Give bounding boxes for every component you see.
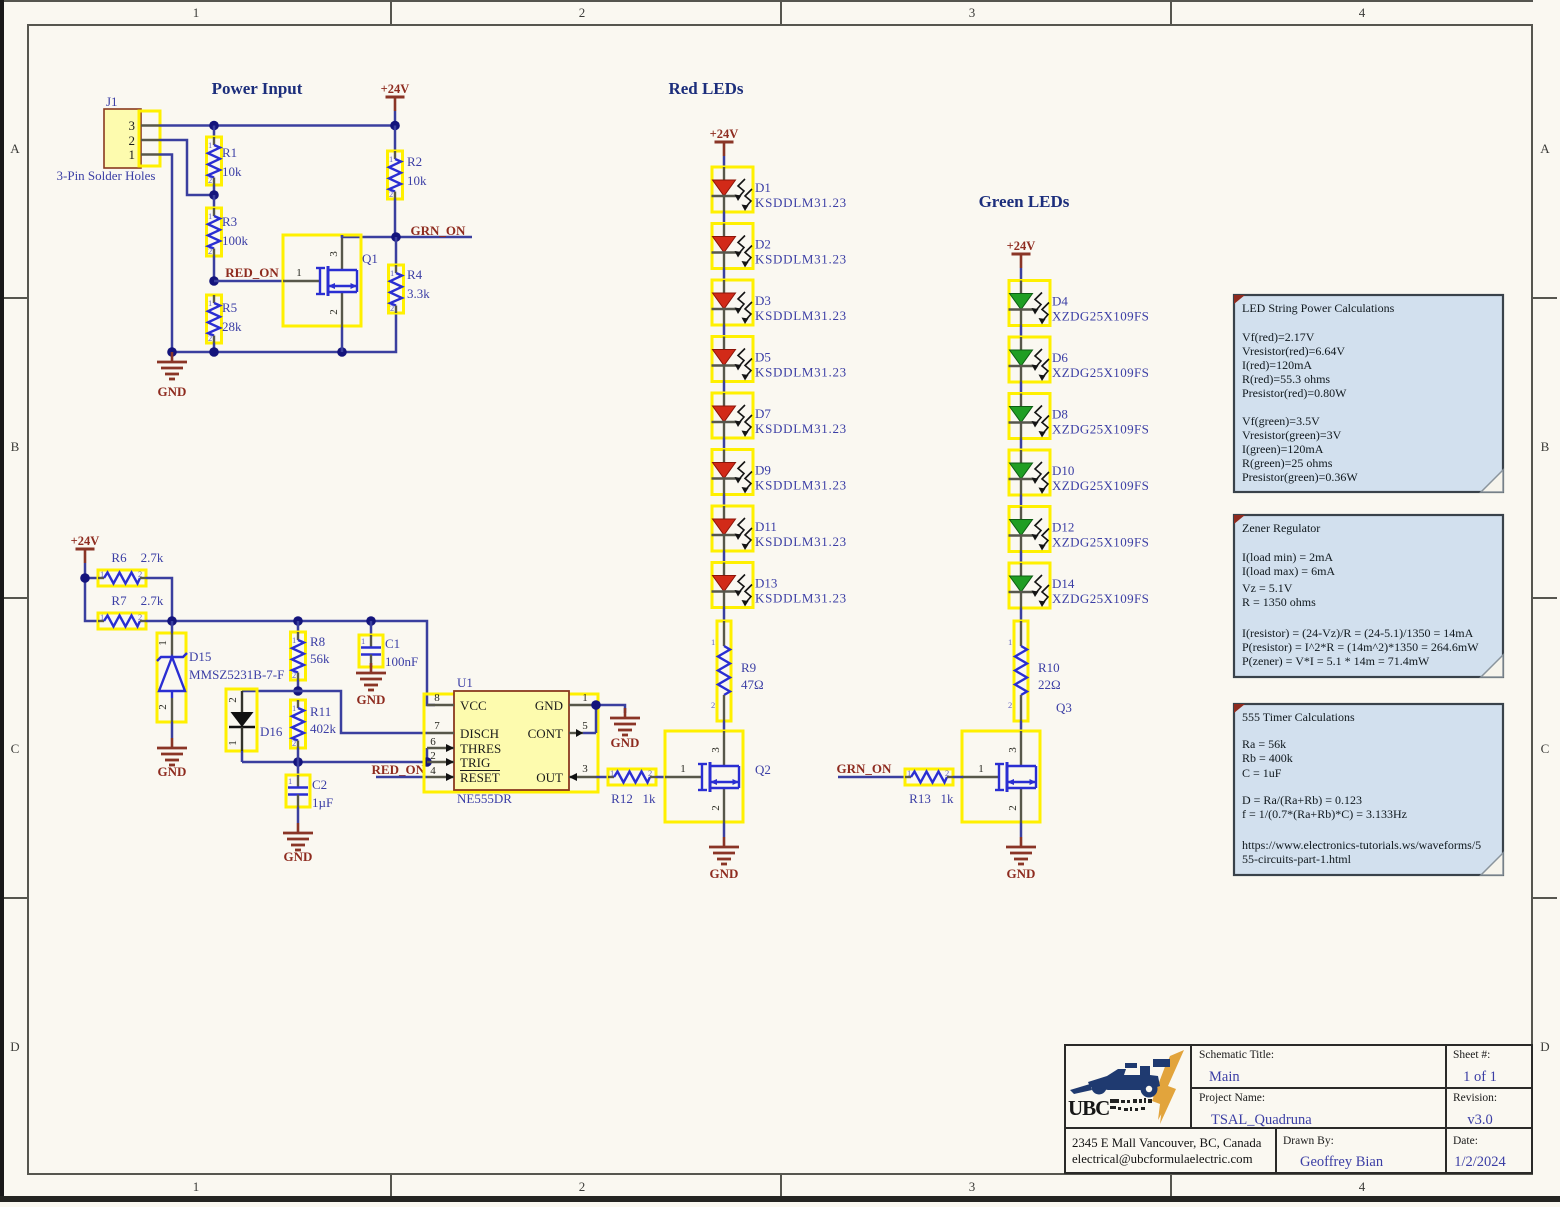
svg-text:1: 1 [193,5,200,20]
svg-text:2: 2 [430,750,436,762]
svg-text:555 Timer Calculations: 555 Timer Calculations [1242,710,1355,724]
svg-text:GRN_ON: GRN_ON [837,761,893,776]
svg-text:Vf(green)=3.5V: Vf(green)=3.5V [1242,414,1320,428]
svg-text:2: 2 [227,697,239,703]
LED D4 [1009,281,1051,326]
svg-text:R8: R8 [310,634,325,649]
wire D14 to R10 [1020,608,1023,621]
node +24V/R6 [80,573,90,583]
svg-text:VCC: VCC [460,698,487,713]
svg-text:1: 1 [296,267,302,279]
wire D5-D7 [723,382,726,394]
resistor R12 [608,768,656,806]
svg-text:Red LEDs: Red LEDs [668,79,743,98]
wire THRES-TRIG tie [426,748,429,762]
svg-text:28k: 28k [222,319,242,334]
svg-text:KSDDLM31.23: KSDDLM31.23 [755,308,847,323]
svg-text:2.7k: 2.7k [141,550,164,565]
svg-text:1µF: 1µF [312,795,333,810]
logo UBC Formula Electric [1068,1050,1184,1124]
svg-text:Rb = 400k: Rb = 400k [1242,751,1293,765]
zone tick left A|B [4,297,28,299]
wire pin1 gnd and pin5 tie [596,705,625,733]
svg-text:1: 1 [711,637,715,647]
svg-text:Sheet #:: Sheet #: [1453,1049,1490,1061]
svg-text:Project Name:: Project Name: [1199,1092,1265,1104]
wire GRN_ON horizontal [342,236,472,239]
svg-text:R = 1350 ohms: R = 1350 ohms [1242,595,1316,609]
svg-text:55-circuits-part-1.html: 55-circuits-part-1.html [1242,852,1352,866]
svg-text:GND: GND [158,764,187,779]
svg-text:22Ω: 22Ω [1038,677,1061,692]
node rail/R8 [293,616,303,626]
svg-text:R(green)=25 ohms: R(green)=25 ohms [1242,456,1333,470]
svg-text:R4: R4 [407,267,423,282]
transistor Q1 [283,235,378,352]
resistor R6 [98,550,164,586]
wire D2-D3 [723,269,726,281]
svg-text:KSDDLM31.23: KSDDLM31.23 [755,591,847,606]
LED D8 [1009,394,1051,439]
svg-text:D = Ra/(Ra+Rb) = 0.123: D = Ra/(Ra+Rb) = 0.123 [1242,793,1362,807]
node GRN_ON / R2 / R4 [391,232,401,242]
LED D3 [712,280,754,325]
svg-text:GND: GND [158,384,187,399]
svg-text:1 of 1: 1 of 1 [1463,1069,1497,1085]
resistor R10 [1008,621,1061,721]
svg-text:Date:: Date: [1453,1135,1478,1147]
J1 pin selection box [139,111,160,166]
svg-text:R10: R10 [1038,660,1060,675]
svg-text:8: 8 [434,692,440,704]
+24V power symbol (power input) [381,82,410,111]
svg-text:R1: R1 [222,145,237,160]
wire D6-D8 [1020,382,1023,394]
svg-text:D2: D2 [755,237,771,252]
car body [1088,1066,1160,1090]
SECTION: title block [1065,1045,1532,1173]
svg-text:7: 7 [434,720,440,732]
note Zener Regulator [1234,515,1503,677]
svg-text:3.3k: 3.3k [407,286,430,301]
svg-text:XZDG25X109FS: XZDG25X109FS [1052,478,1149,493]
logo pixel text formula electric [1110,1098,1152,1111]
ground symbol (D15) [157,738,187,765]
svg-text:2: 2 [157,704,169,710]
svg-text:D: D [10,1039,19,1054]
svg-text:Geoffrey Bian: Geoffrey Bian [1300,1154,1384,1170]
svg-text:v3.0: v3.0 [1467,1112,1492,1128]
wire Q2 source to gnd [723,823,726,837]
capacitor C2 [286,762,333,810]
wire C2 to gnd [297,807,300,823]
svg-text:1: 1 [157,640,169,646]
wire D12-D14 [1020,552,1023,564]
wire J1 pin1 down to ground rail [160,155,172,353]
LED D2 [712,224,754,269]
note 555 Timer Calculations [1234,704,1503,875]
svg-text:2345 E Mall Vancouver, BC, Can: 2345 E Mall Vancouver, BC, Canada [1072,1136,1262,1150]
svg-text:GND: GND [357,692,386,707]
node R1/R3 [209,190,219,200]
svg-text:D7: D7 [755,406,771,421]
svg-text:XZDG25X109FS: XZDG25X109FS [1052,591,1149,606]
wire branch to R6 [85,577,98,580]
ground symbol (Q2) [709,837,739,864]
svg-text:Schematic Title:: Schematic Title: [1199,1049,1274,1061]
svg-text:KSDDLM31.23: KSDDLM31.23 [755,195,847,210]
wire D15 to gnd [171,722,174,738]
svg-text:LED String Power Calculations: LED String Power Calculations [1242,301,1395,315]
svg-text:5: 5 [582,720,588,732]
LED D12 [1009,507,1051,552]
node R6R7 join [167,616,177,626]
svg-text:GRN_ON: GRN_ON [411,223,467,238]
svg-text:3: 3 [582,763,588,775]
svg-text:B: B [1541,439,1550,454]
svg-text:R2: R2 [407,154,422,169]
node J1.3/R1 [209,121,219,131]
wire D3-D5 [723,325,726,337]
svg-text:Presistor(red)=0.80W: Presistor(red)=0.80W [1242,386,1347,400]
transistor Q3 [962,700,1072,823]
svg-text:KSDDLM31.23: KSDDLM31.23 [755,478,847,493]
svg-text:J1: J1 [106,94,118,109]
svg-text:R12: R12 [611,791,633,806]
node pin1 [591,700,601,710]
svg-text:10k: 10k [407,173,427,188]
zone tick top 2|3 [780,0,782,25]
zone tick bottom 2|3 [780,1174,782,1196]
wire +24V to D1 [723,156,726,167]
svg-text:R9: R9 [741,660,756,675]
svg-text:D9: D9 [755,463,771,478]
zone tick right A|B [1532,297,1557,299]
svg-text:OUT: OUT [536,770,563,785]
LED D13 [712,563,754,608]
svg-text:Vf(red)=2.17V: Vf(red)=2.17V [1242,330,1315,344]
svg-text:GND: GND [611,735,640,750]
wire R12 to Q2 gate [656,776,666,779]
lightning bolt [1153,1050,1184,1124]
svg-text:1: 1 [193,1179,200,1194]
connector J1 body [57,94,156,183]
zener diode D15 [157,621,284,722]
svg-text:D4: D4 [1052,294,1068,309]
LED D5 [712,337,754,382]
svg-text:3: 3 [969,5,976,20]
svg-text:I(load min) = 2mA: I(load min) = 2mA [1242,550,1333,564]
svg-text:D8: D8 [1052,407,1068,422]
node TRIG tie [422,757,432,767]
wire D8-D10 [1020,439,1023,451]
svg-text:GND: GND [1007,866,1036,881]
svg-text:C = 1uF: C = 1uF [1242,766,1282,780]
svg-text:D3: D3 [755,293,771,308]
capacitor C1 [359,621,418,669]
svg-text:UBC: UBC [1068,1096,1109,1120]
svg-text:R13: R13 [909,791,931,806]
svg-text:TRIG: TRIG [460,755,490,770]
svg-text:100k: 100k [222,233,249,248]
svg-text:R5: R5 [222,300,237,315]
car halo [1125,1063,1137,1068]
wire D10-D12 [1020,495,1023,507]
svg-text:C: C [11,741,20,756]
svg-text:DISCH: DISCH [460,726,499,741]
node rail/C1 [366,616,376,626]
svg-text:3: 3 [969,1179,976,1194]
svg-text:P(zener) = V*I = 5.1 * 14m = 7: P(zener) = V*I = 5.1 * 14m = 71.4mW [1242,654,1430,668]
svg-text:KSDDLM31.23: KSDDLM31.23 [755,421,847,436]
svg-text:1: 1 [680,763,686,775]
+24V power symbol (green string) [1007,239,1036,268]
J1 pin 1 stub [141,153,160,155]
svg-text:4: 4 [1359,1179,1366,1194]
resistor R4 [389,237,431,313]
wire top rail y=621 [146,621,435,705]
zone tick top 3|4 [1170,0,1172,25]
svg-text:100nF: 100nF [385,654,418,669]
J1 pin 3 stub [141,124,160,126]
svg-text:Power Input: Power Input [212,79,303,98]
svg-text:KSDDLM31.23: KSDDLM31.23 [755,534,847,549]
svg-text:56k: 56k [310,651,330,666]
ground rail wire [172,312,396,352]
svg-text:RESET: RESET [460,770,500,785]
J1 pin 2 stub [141,139,160,141]
svg-text:2: 2 [1008,700,1012,710]
svg-text:Vresistor(green)=3V: Vresistor(green)=3V [1242,428,1342,442]
ground symbol (Q3) [1006,837,1036,864]
svg-text:2: 2 [711,700,715,710]
svg-text:XZDG25X109FS: XZDG25X109FS [1052,535,1149,550]
wire D4-D6 [1020,326,1023,338]
wire D13 to R9 [723,608,726,622]
wire GRN_ON to R13 [838,776,905,779]
LED D6 [1009,337,1051,382]
car rear wing [1153,1059,1170,1067]
svg-text:CONT: CONT [528,726,563,741]
svg-text:GND: GND [535,698,563,713]
svg-text:Vresistor(red)=6.64V: Vresistor(red)=6.64V [1242,344,1345,358]
LED D14 [1009,563,1051,608]
wire D1-D2 [723,212,726,224]
wire R10 to Q3 [1020,721,1023,732]
svg-text:I(green)=120mA: I(green)=120mA [1242,442,1324,456]
svg-text:D6: D6 [1052,350,1068,365]
zone tick right C|D [1532,897,1557,899]
svg-text:D16: D16 [260,724,283,739]
svg-text:THRES: THRES [460,741,501,756]
resistor R13 [905,768,954,806]
svg-text:D11: D11 [755,519,777,534]
svg-text:GND: GND [710,866,739,881]
wire J1 pin2 down to R1 bottom node [160,140,214,195]
svg-text:electrical@ubcformulaelectric.: electrical@ubcformulaelectric.com [1072,1152,1253,1166]
car front wheel [1092,1080,1107,1095]
svg-text:1: 1 [129,147,136,162]
node +24V/R2 [390,121,400,131]
svg-text:1k: 1k [941,791,955,806]
wire +24V to D4 [1020,268,1023,281]
zone tick bottom 3|4 [1170,1174,1172,1196]
LED D10 [1009,450,1051,495]
wire THRES/TRIG rail y=762 [242,761,427,764]
svg-text:1k: 1k [643,791,657,806]
svg-text:Presistor(green)=0.36W: Presistor(green)=0.36W [1242,470,1358,484]
svg-text:D10: D10 [1052,463,1074,478]
svg-text:D15: D15 [189,649,211,664]
outer top border line [0,0,1533,2]
resistor R2 [388,126,428,238]
LED D1 [712,167,754,212]
wire R9 to Q2 [723,721,726,732]
left edge scan strip [0,0,4,1202]
svg-text:D: D [1540,1039,1549,1054]
+24V power symbol (red string) [710,127,739,156]
zone tick right B|C [1532,597,1557,599]
svg-text:3: 3 [129,118,136,133]
svg-text:R11: R11 [310,704,331,719]
svg-text:Q3: Q3 [1056,700,1072,715]
zone tick top 1|2 [390,0,392,25]
svg-text:U1: U1 [457,675,473,690]
svg-text:I(load max) = 6mA: I(load max) = 6mA [1242,564,1335,578]
svg-text:https://www.electronics-tutori: https://www.electronics-tutorials.ws/wav… [1242,838,1481,852]
svg-text:Main: Main [1209,1069,1240,1085]
svg-text:Q2: Q2 [755,762,771,777]
wire R6 right to rail [146,578,172,621]
svg-text:KSDDLM31.23: KSDDLM31.23 [755,365,847,380]
svg-text:D5: D5 [755,350,771,365]
svg-text:Drawn By:: Drawn By: [1283,1135,1334,1147]
resistor R1 [207,126,243,196]
svg-text:R7: R7 [111,593,127,608]
zone tick left B|C [4,597,28,599]
resistor R3 [207,195,249,281]
node gnd rail / Q1 source [337,347,347,357]
svg-text:2.7k: 2.7k [141,593,164,608]
svg-text:C1: C1 [385,636,400,651]
svg-text:6: 6 [430,736,436,748]
svg-text:2: 2 [579,1179,586,1194]
wire J1 pin3 to +24V rail [160,124,395,127]
svg-text:A: A [10,141,20,156]
resistor R9 [711,621,764,721]
svg-text:R6: R6 [111,550,127,565]
op-amp U1 555 timer [424,675,598,806]
svg-text:10k: 10k [222,164,242,179]
node gnd rail / J1.1 [167,347,177,357]
wire +24V down to R6/R7 [85,563,98,621]
node R8/R11/D16 [293,686,303,696]
+24V power symbol (555) [71,534,100,563]
svg-text:I(resistor) = (24-Vz)/R = (24-: I(resistor) = (24-Vz)/R = (24-5.1)/1350 … [1242,626,1474,640]
resistor R8 [291,621,331,691]
LED D9 [712,450,754,495]
node TRIG rail / R11 / C2 [293,757,303,767]
wire OUT to R12 [596,776,608,779]
svg-text:R3: R3 [222,214,237,229]
resistor R11 [291,700,337,762]
ground symbol (power input) [157,352,187,379]
svg-text:I(red)=120mA: I(red)=120mA [1242,358,1312,372]
transistor Q2 [665,731,771,823]
wire D11-D13 [723,551,726,563]
svg-text:3-Pin Solder Holes: 3-Pin Solder Holes [57,168,156,183]
svg-text:D1: D1 [755,180,771,195]
svg-text:NE555DR: NE555DR [457,791,512,806]
svg-text:4: 4 [430,765,436,777]
wire DISCH node to pin7 [242,691,427,733]
ground symbol (555 pin1) [610,708,640,735]
note LED String Power Calculations [1234,295,1503,492]
svg-text:47Ω: 47Ω [741,677,764,692]
svg-text:D13: D13 [755,576,777,591]
wire D16 bottom to TRIG rail [241,751,244,762]
svg-text:MMSZ5231B-7-F: MMSZ5231B-7-F [189,667,284,682]
svg-text:Revision:: Revision: [1453,1092,1497,1104]
ground symbol (C2) [283,823,313,850]
wire pin5 stub tie [583,732,596,735]
svg-text:D14: D14 [1052,576,1075,591]
svg-text:2: 2 [579,5,586,20]
bottom edge scan strip [0,1196,1560,1202]
svg-text:Zener Regulator: Zener Regulator [1242,521,1320,535]
svg-text:RED_ON: RED_ON [225,265,279,280]
svg-text:1/2/2024: 1/2/2024 [1454,1154,1506,1170]
svg-text:2: 2 [129,133,136,148]
wire R13 to Q3 gate [953,776,963,779]
svg-text:402k: 402k [310,721,337,736]
zone tick bottom 1|2 [390,1174,392,1196]
diode D16 [226,689,283,751]
node R3/R5 RED_ON [209,276,219,286]
svg-text:f = 1/(0.7*(Ra+Rb)*C) = 3.133H: f = 1/(0.7*(Ra+Rb)*C) = 3.133Hz [1242,807,1407,821]
svg-text:1: 1 [1008,637,1012,647]
svg-text:P(resistor) = I^2*R = (14m^2)*: P(resistor) = I^2*R = (14m^2)*1350 = 264… [1242,640,1479,654]
LED D11 [712,506,754,551]
svg-text:4: 4 [1359,5,1366,20]
svg-text:Q1: Q1 [362,251,378,266]
svg-text:C2: C2 [312,777,327,792]
svg-text:Vz = 5.1V: Vz = 5.1V [1242,581,1293,595]
svg-text:1: 1 [227,740,239,746]
svg-text:Ra = 56k: Ra = 56k [1242,737,1286,751]
svg-text:D12: D12 [1052,520,1074,535]
resistor R7 [98,593,164,629]
svg-text:A: A [1540,141,1550,156]
svg-text:B: B [11,439,20,454]
svg-text:R(red)=55.3 ohms: R(red)=55.3 ohms [1242,372,1330,386]
wire RED_ON to pin4 [376,776,427,779]
svg-text:KSDDLM31.23: KSDDLM31.23 [755,252,847,267]
wire D9-D11 [723,495,726,507]
svg-text:GND: GND [284,849,313,864]
car front wing [1070,1084,1092,1094]
resistor R5 [207,295,243,352]
svg-text:1: 1 [582,692,588,704]
wire D7-D9 [723,438,726,450]
svg-text:TSAL_Quadruna: TSAL_Quadruna [1211,1112,1312,1128]
wire Q3 source to gnd [1020,823,1023,837]
svg-text:Green LEDs: Green LEDs [979,192,1070,211]
svg-text:C: C [1541,741,1550,756]
svg-text:1: 1 [978,763,984,775]
ground symbol (C1) [370,666,373,667]
svg-text:XZDG25X109FS: XZDG25X109FS [1052,309,1149,324]
